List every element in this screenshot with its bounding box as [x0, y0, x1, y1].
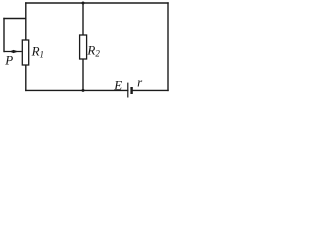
slider arrow P (wiper of rheostat pointing at R1) — [4, 50, 22, 53]
wire rheostat tap horizontal (left branch to left stub) — [4, 18, 26, 20]
wire left lower (R1 bottom to bottom-left corner) — [25, 65, 27, 90]
wire right side — [167, 3, 169, 90]
wire bottom-left (battery long plate to left corner) — [26, 89, 128, 91]
wire middle branch upper (top wire down to R2) — [82, 3, 84, 35]
wire left upper (top-left corner down to R1) — [25, 3, 27, 40]
wire bottom-right (right corner to battery short plate) — [132, 89, 168, 91]
wire top (from top-left corner to top-right corner) — [26, 2, 168, 4]
wire rheostat tap vertical (down to slider arrow) — [3, 19, 5, 52]
svg-text:P: P — [4, 53, 13, 68]
junction node bottom (middle branch to bottom wire) — [82, 89, 85, 92]
battery E long plate (positive) — [127, 83, 129, 98]
resistor R1 (rheostat body) — [22, 40, 28, 65]
resistor R2 — [80, 35, 87, 59]
wire middle branch lower (R2 bottom to bottom wire) — [82, 59, 84, 90]
junction node top (middle branch to top wire) — [82, 2, 85, 5]
battery E short plate (negative) — [130, 87, 132, 94]
svg-text:E: E — [113, 77, 122, 92]
